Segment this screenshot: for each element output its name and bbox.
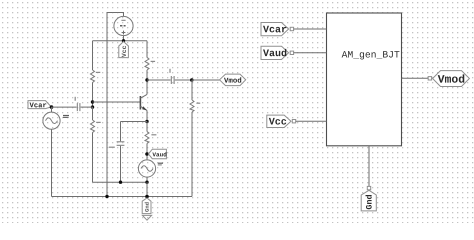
wire RL bottom to ground rail [191, 112, 193, 197]
port tag Vaud (block input) [261, 46, 289, 59]
value label R2 [96, 122, 101, 123]
ac source V3 (audio) [138, 160, 163, 177]
wire Vcar node to C1 [52, 106, 77, 108]
junction Vaud node [145, 152, 149, 156]
capacitor C2 [169, 69, 174, 84]
junction cap wire [91, 105, 94, 108]
pin connector Vcar [290, 27, 293, 30]
value label RE [151, 134, 156, 135]
wire RE bottom to Vaud node [146, 144, 148, 160]
wire output node to Vmod tag [192, 79, 220, 81]
port tag Vaud (left schematic) [148, 149, 166, 159]
resistor RE [145, 132, 149, 144]
pin connector gnd [367, 186, 370, 189]
wire collector node to C2 [147, 79, 171, 81]
wire Vcc rail corner down to RC [146, 41, 148, 58]
junction output node [190, 78, 194, 82]
junction gnd tag node [145, 195, 149, 199]
junction V3 bottom [145, 181, 148, 184]
wire V2 bottom to ground rail [51, 129, 53, 196]
port tag Vcc (block input) [267, 115, 291, 127]
resistor R1 [91, 70, 95, 83]
port tag Vcar [28, 101, 51, 109]
value label RL [196, 103, 200, 104]
pin connector Vaud [290, 51, 293, 54]
wire V2 top [51, 107, 53, 112]
wire Vcc rail [93, 40, 148, 42]
resistor RC [145, 58, 149, 71]
wire emitter node to CE branch [121, 121, 148, 123]
junction emitter node [145, 120, 148, 123]
wire block to gnd [368, 146, 370, 187]
junction CE bottom [119, 181, 122, 184]
wire emitter node down to RE [146, 122, 148, 132]
wire Vcc- top loop: source top to left rail down to ground rail [107, 13, 124, 197]
wire base [93, 101, 141, 103]
wire R1 bottom to base node [92, 83, 94, 121]
junction Vcar node [50, 105, 54, 109]
wire CE bottom [120, 146, 122, 182]
resistor RL [190, 100, 194, 112]
junction Vcc rail / source [122, 39, 125, 42]
port tag Vcc [119, 42, 129, 58]
block AM_gen_BJT [327, 13, 402, 146]
wire Vcar to block [294, 28, 327, 30]
wire collector up to node [146, 80, 148, 94]
port tag Vcar (block input) [261, 23, 289, 36]
wire V3 bottom [146, 177, 148, 182]
dc source V1 (Vcc supply) [114, 16, 133, 35]
port tag Vmod (left schematic) [220, 74, 246, 86]
wire block to Vmod [402, 77, 429, 79]
wire bias divider upper segment [92, 41, 94, 70]
port tag Vmod (block output) [433, 71, 470, 87]
wire Vcc to block [296, 120, 327, 122]
value label R1 [96, 72, 101, 73]
wire emitter ground bus [93, 181, 148, 183]
wire bias divider lower segment [92, 107, 94, 120]
junction Vcc- on ground rail [105, 195, 108, 198]
ac source V2 (carrier) [43, 112, 69, 129]
junction base wire [91, 100, 94, 103]
wire C2 to output node [175, 79, 192, 81]
wire output node down to RL [191, 80, 193, 100]
value label RC [151, 61, 156, 62]
wire RC bottom to collector node [146, 70, 148, 80]
wire R2 bottom to emitter rail [92, 133, 94, 183]
junction collector node [145, 78, 148, 81]
transistor Q1 [140, 94, 147, 110]
wire V3 node down to ground rail [146, 182, 148, 196]
wire CE branch down [120, 122, 122, 142]
capacitor C1 [75, 97, 80, 111]
port tag gnd (block) [361, 190, 376, 211]
pin connector Vmod [428, 77, 431, 80]
wire ground rail [52, 196, 193, 198]
resistor R2 [91, 120, 95, 133]
pin connector Vcc [292, 120, 295, 123]
wire C1 to bias node [81, 106, 93, 108]
wire source bottom to Vcc rail [123, 36, 125, 41]
wire emitter down [146, 110, 148, 121]
port tag gnd (left schematic) [142, 198, 151, 220]
wire Vaud to block [294, 52, 327, 54]
capacitor CE [109, 142, 125, 148]
